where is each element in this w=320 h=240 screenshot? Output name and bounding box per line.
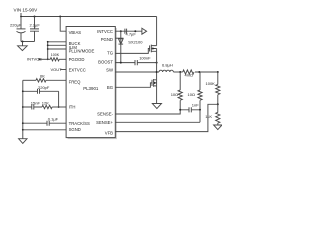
- svg-text:EXTVCC: EXTVCC: [69, 67, 86, 72]
- svg-text:TRACK/SS: TRACK/SS: [69, 121, 90, 126]
- svg-text:VIN 15-90V: VIN 15-90V: [14, 8, 39, 13]
- svg-text:SW: SW: [106, 68, 113, 73]
- svg-text:VFB: VFB: [105, 130, 113, 135]
- svg-text:TG: TG: [107, 50, 113, 55]
- svg-text:100nF: 100nF: [139, 55, 151, 60]
- svg-text:0.1µF: 0.1µF: [48, 116, 59, 121]
- svg-text:10Ω: 10Ω: [171, 92, 178, 97]
- svg-text:6K: 6K: [40, 74, 45, 79]
- svg-text:PGOOD: PGOOD: [69, 57, 85, 62]
- svg-text:11K: 11K: [205, 114, 212, 119]
- svg-text:4.7µF: 4.7µF: [126, 31, 137, 36]
- svg-text:SX2100: SX2100: [128, 39, 143, 44]
- svg-text:SENSE-: SENSE-: [97, 112, 113, 117]
- svg-text:BOOST: BOOST: [98, 60, 113, 65]
- svg-text:100K: 100K: [206, 81, 216, 86]
- svg-text:VBIAS: VBIAS: [69, 30, 82, 35]
- svg-text:VOUT: VOUT: [51, 67, 63, 72]
- svg-text:BG: BG: [107, 85, 113, 90]
- svg-text:100K: 100K: [51, 53, 60, 57]
- svg-text:SENSE+: SENSE+: [96, 120, 113, 125]
- svg-text:FREQ: FREQ: [69, 79, 82, 84]
- svg-text:ITH: ITH: [69, 105, 76, 110]
- svg-text:PLLIN/MODE: PLLIN/MODE: [69, 49, 95, 54]
- svg-text:INTVCC: INTVCC: [97, 29, 113, 34]
- svg-text:1nF: 1nF: [192, 103, 199, 108]
- svg-text:220µF: 220µF: [10, 22, 22, 27]
- svg-text:PL3901: PL3901: [83, 86, 99, 91]
- svg-text:PGND: PGND: [101, 37, 113, 42]
- svg-text:SGND: SGND: [69, 127, 81, 132]
- svg-text:4mΩ: 4mΩ: [185, 73, 194, 78]
- svg-text:6.8µH: 6.8µH: [162, 62, 173, 67]
- svg-text:10Ω: 10Ω: [188, 92, 195, 97]
